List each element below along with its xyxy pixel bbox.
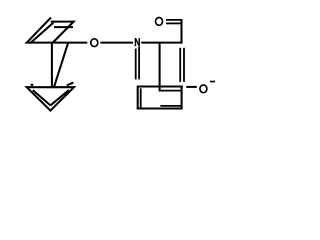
wire ring left edge	[137, 87, 139, 110]
wire bond N to aldehyde carbon	[141, 42, 182, 44]
wire cage top edge	[51, 22, 74, 43]
wire ring bottom edge	[137, 107, 183, 109]
node N letter	[135, 38, 140, 46]
wire aldehyde C=O upper line	[166, 19, 183, 21]
wire cage top edge inner (double bond)	[54, 26, 73, 28]
wire ring top edge	[137, 85, 183, 87]
wire ring bottom inner (double bond)	[160, 105, 181, 107]
wire cage baseline and left slant outer	[27, 18, 88, 43]
wire triangle inner left	[33, 90, 51, 105]
wire chain vertical into ring	[159, 43, 161, 92]
wire exocyclic C=C right line	[183, 48, 185, 82]
wire cage vertical to triangle	[51, 43, 53, 89]
wire C=N double bond right line	[138, 47, 140, 80]
wire triangle corner tick right	[67, 83, 74, 86]
node minus charge	[210, 81, 215, 83]
wire exocyclic C=C left line	[179, 48, 181, 82]
node O ether letter	[91, 39, 98, 47]
wire triangle outline	[27, 87, 74, 110]
node O aldehyde letter	[156, 18, 163, 26]
wire cage left slant inner (double bond)	[31, 23, 54, 43]
wire aldehyde C=O lower line	[166, 22, 181, 24]
wire bond to O minus	[186, 86, 197, 88]
node O minus letter	[200, 85, 207, 93]
wire ring step inner line	[160, 90, 181, 92]
wire C=N double bond left line	[135, 49, 137, 80]
wire triangle inner right	[50, 90, 69, 105]
wire cage slant to triangle	[54, 43, 68, 89]
wire bond O to N	[100, 42, 133, 44]
wire aldehyde vertical bond	[180, 20, 182, 43]
wire triangle corner tick left	[31, 84, 34, 86]
wire ring left inner (double bond)	[140, 88, 142, 108]
wire ring right edge	[181, 87, 183, 110]
